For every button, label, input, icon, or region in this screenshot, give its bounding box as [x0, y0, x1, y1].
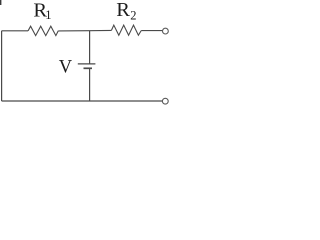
terminal top right [163, 28, 169, 34]
svg-text:2: 2 [130, 9, 136, 23]
svg-text:R: R [116, 0, 130, 21]
svg-text:V: V [59, 57, 73, 77]
wire bottom [2, 100, 163, 102]
wire left vertical [1, 31, 3, 101]
wire middle branch lower [89, 68, 91, 101]
resistor R2 [111, 25, 141, 35]
svg-text:1: 1 [45, 8, 51, 22]
wire middle branch upper [89, 31, 91, 64]
terminal bottom right [162, 98, 168, 104]
resistor R1 [28, 26, 58, 35]
wire top left segment [2, 30, 29, 32]
battery V long plate [78, 63, 96, 65]
wire top middle segment [58, 29, 111, 32]
battery V short plate [84, 67, 93, 69]
edge artifact mark [0, 0, 1, 5]
wire top right segment [141, 30, 162, 32]
